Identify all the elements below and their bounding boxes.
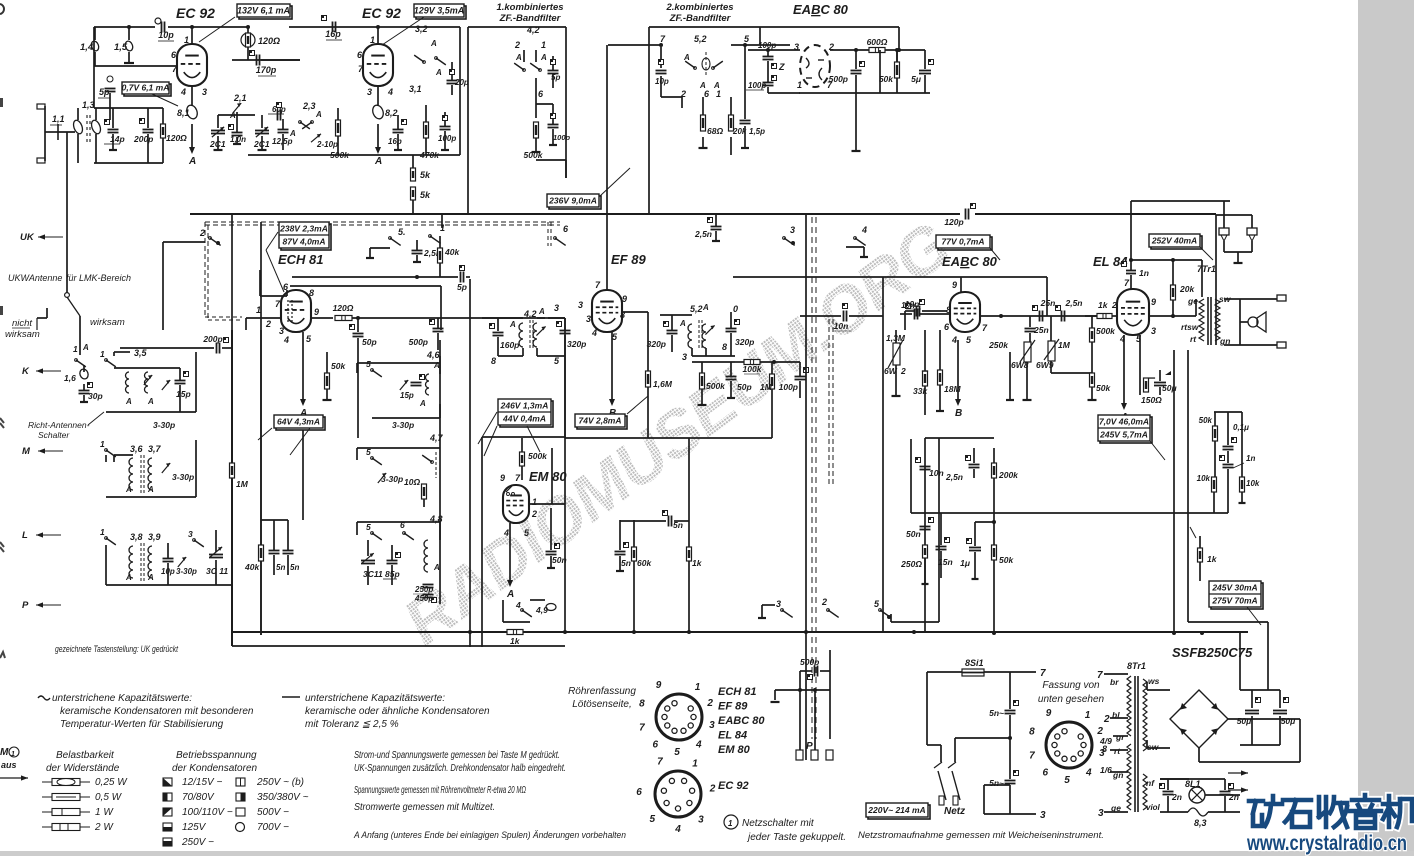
svg-text:2: 2: [1103, 714, 1110, 725]
coil 8,2: [377, 86, 379, 106]
svg-text:www.crystalradio.cn: www.crystalradio.cn: [1246, 832, 1407, 855]
cap 15n: [936, 546, 947, 548]
svg-text:P: P: [22, 600, 29, 611]
switch 2 left: [209, 237, 212, 240]
svg-text:sw: sw: [1147, 742, 1160, 752]
svg-text:nicht: nicht: [12, 318, 32, 329]
svg-text:14p: 14p: [110, 134, 125, 144]
svg-text:wirksam: wirksam: [90, 317, 125, 328]
resistor 100k horizontal: [744, 360, 760, 365]
svg-text:77V 0,7mA: 77V 0,7mA: [942, 236, 985, 246]
crystalradio logo chinese: [1249, 795, 1412, 828]
tube EABC80 diodes dashed circle: [800, 45, 830, 87]
svg-text:1: 1: [695, 682, 701, 693]
netz switch: [938, 771, 946, 800]
output jacks: [1277, 295, 1286, 301]
svg-text:1: 1: [370, 35, 375, 45]
caps 5n netz upper: [1005, 710, 1016, 712]
svg-text:K: K: [22, 366, 30, 377]
trimmer 3-30p K: [162, 380, 170, 390]
svg-text:der Widerstände: der Widerstände: [46, 763, 120, 774]
cap 10p coupling: [155, 18, 161, 24]
svg-text:3,5: 3,5: [134, 348, 148, 358]
wire EC92-1 plate riser: [191, 27, 193, 45]
resistor 1k row: [687, 547, 692, 561]
cap 50n em80: [546, 551, 557, 553]
long vertical x806: [805, 214, 807, 760]
svg-text:2: 2: [1111, 300, 1117, 310]
svg-text:4: 4: [387, 87, 393, 97]
cap 320p ef in: [560, 330, 571, 332]
svg-text:0,25 W: 0,25 W: [95, 777, 128, 788]
cap 1,5p: [740, 120, 751, 122]
value box 77V 0,7mA: [938, 237, 992, 250]
svg-text:Temperatur-Werten für Stabilis: Temperatur-Werten für Stabilisierung: [60, 719, 224, 730]
svg-text:UKWAntenne: UKWAntenne: [8, 273, 62, 283]
svg-text:238V 2,3mA: 238V 2,3mA: [279, 223, 328, 233]
cap 5p agc: [460, 272, 462, 283]
svg-text:700V −: 700V −: [257, 822, 289, 833]
svg-text:2: 2: [514, 40, 520, 50]
svg-text:1,6: 1,6: [64, 373, 76, 383]
svg-text:2C1: 2C1: [209, 139, 226, 149]
svg-text:1k: 1k: [1207, 554, 1218, 564]
fuse 8Si1: [962, 669, 984, 676]
legend capacitor col1: [163, 778, 172, 786]
arrow A cathode EC92-2: [377, 124, 379, 148]
svg-text:170p: 170p: [256, 65, 277, 75]
coil 8,1: [191, 86, 193, 106]
svg-text:10n: 10n: [901, 301, 915, 310]
P group wires: [799, 671, 801, 690]
svg-text:1 W: 1 W: [95, 807, 114, 818]
pot 1M: [1048, 341, 1055, 361]
svg-text:A: A: [538, 307, 545, 316]
svg-text:1k: 1k: [692, 558, 703, 568]
tuning cap 2C1 bank2: [261, 115, 263, 128]
svg-text:1: 1: [692, 758, 698, 769]
svg-text:250k: 250k: [988, 340, 1009, 350]
svg-text:236V 9,0mA: 236V 9,0mA: [548, 195, 597, 205]
svg-text:125V: 125V: [182, 822, 207, 833]
caps 5n 5n: [269, 550, 280, 552]
svg-text:4: 4: [180, 87, 186, 97]
value boxes 7,0V / 245V: [1100, 417, 1152, 443]
svg-text:10Ω: 10Ω: [404, 477, 420, 487]
tube EL84: [1117, 289, 1149, 335]
cap 0,1u right: [1223, 446, 1234, 448]
resistor 50k mb: [992, 545, 997, 560]
svg-text:keramische oder ähnliche Ko: keramische oder ähnliche Kondensatoren: [305, 706, 490, 717]
svg-text:nf: nf: [1146, 778, 1155, 788]
dashed pair 10n run: [828, 319, 830, 486]
resistor 250ohm: [923, 545, 928, 558]
switch 3 mid rail: [783, 237, 786, 240]
svg-text:20k: 20k: [1179, 284, 1195, 294]
value box 0,7V 6,1mA: [124, 84, 171, 96]
cap 16p: [322, 16, 327, 21]
svg-text:A: A: [188, 156, 196, 167]
svg-text:100p: 100p: [438, 134, 456, 143]
svg-text:15p: 15p: [400, 391, 414, 400]
svg-text:5: 5: [366, 522, 371, 532]
svg-text:500k: 500k: [1096, 326, 1116, 336]
svg-text:1: 1: [11, 751, 15, 758]
svg-text:7: 7: [657, 756, 663, 767]
resistor 20k: [729, 115, 734, 131]
svg-text:1M: 1M: [1058, 340, 1071, 350]
value box 132V 6.1mA: [239, 6, 292, 19]
svg-text:1: 1: [541, 40, 546, 50]
svg-text:8: 8: [722, 342, 727, 352]
value box 74V 2,8mA: [577, 416, 627, 429]
svg-text:A: A: [515, 53, 522, 62]
svg-text:5n~: 5n~: [989, 778, 1004, 788]
legend resistor rows: [42, 781, 52, 783]
resistor 50k det: [895, 62, 900, 78]
tube EM80: [503, 485, 529, 523]
svg-text:100p: 100p: [553, 133, 571, 142]
svg-text:2,5n: 2,5n: [1064, 298, 1082, 308]
svg-text:A: A: [430, 39, 437, 48]
svg-text:3,8: 3,8: [130, 532, 143, 542]
svg-text:20p: 20p: [454, 78, 469, 87]
svg-text:120Ω: 120Ω: [258, 36, 280, 46]
resistor 120ohm bias with circle: [241, 33, 255, 47]
svg-text:EM 80: EM 80: [718, 744, 751, 756]
arrow A cathode EC92-1: [191, 124, 193, 148]
svg-text:3: 3: [682, 352, 687, 362]
svg-text:Netzschalter mit: Netzschalter mit: [742, 818, 815, 829]
svg-text:500p: 500p: [829, 74, 848, 84]
svg-text:3: 3: [790, 225, 795, 235]
svg-text:200p: 200p: [202, 334, 222, 344]
svg-text:5p: 5p: [99, 87, 110, 97]
cap 100p agc: [795, 376, 806, 378]
left antenna connector: [37, 104, 45, 109]
cap 500p mid: [433, 328, 444, 330]
svg-text:1.kombiniertes: 1.kombiniertes: [496, 2, 563, 13]
svg-text:6: 6: [1042, 767, 1048, 778]
trimmer 2,1: [233, 103, 241, 113]
svg-text:2: 2: [709, 784, 716, 795]
long dashed pair x812: [811, 217, 813, 739]
svg-text:2C1: 2C1: [253, 139, 270, 149]
arrow B eabc: [957, 340, 959, 400]
svg-text:129V 3,5mA: 129V 3,5mA: [414, 5, 465, 15]
long vertical x883: [882, 277, 884, 632]
coil 1,4: [94, 27, 96, 40]
svg-text:7,0V 46,0mA: 7,0V 46,0mA: [1099, 416, 1149, 426]
svg-text:3C 11: 3C 11: [206, 566, 228, 576]
svg-text:2-10p: 2-10p: [316, 140, 338, 149]
bandfilter1 frame: [468, 26, 566, 28]
rail y438 right segment: [925, 437, 994, 439]
wire em80 pins: [529, 503, 565, 505]
socket netz: [1046, 722, 1092, 768]
svg-text:ZF.-Bandfilter: ZF.-Bandfilter: [499, 13, 562, 24]
power trafo primary winding lower: [1127, 744, 1131, 810]
svg-text:10n: 10n: [929, 468, 944, 478]
svg-text:1: 1: [100, 439, 105, 449]
resistor 50k ech: [325, 373, 330, 389]
svg-text:1k: 1k: [1098, 300, 1109, 310]
svg-text:8Tr1: 8Tr1: [1127, 661, 1146, 671]
switch 6 dashed entry: [554, 237, 557, 240]
svg-text:Schalter: Schalter: [38, 430, 70, 440]
svg-text:gr: gr: [1115, 732, 1125, 742]
svg-text:A: A: [433, 563, 440, 572]
vertical feed right: [1239, 633, 1241, 690]
svg-text:70/80V: 70/80V: [182, 792, 215, 803]
svg-text:6W8: 6W8: [1011, 360, 1029, 370]
legend underlined cap note left: [38, 696, 50, 700]
rail y277: [733, 276, 1047, 278]
svg-text:100p: 100p: [758, 41, 776, 50]
svg-text:1,4: 1,4: [80, 42, 94, 53]
cap 50p: [353, 333, 364, 335]
switch 3 bottom: [781, 609, 784, 612]
svg-text:unterstrichene Kapazitätswert: unterstrichene Kapazitätswerte:: [305, 693, 445, 704]
svg-text:A: A: [147, 573, 154, 582]
svg-text:50k: 50k: [879, 74, 894, 84]
hexode grid dashes: [287, 300, 289, 322]
svg-text:1,3: 1,3: [82, 100, 95, 110]
cap 20p: [447, 80, 458, 82]
svg-text:2: 2: [531, 509, 537, 519]
svg-text:4: 4: [503, 528, 509, 538]
em80 frame wires: [482, 436, 565, 438]
cap 60p: [277, 110, 279, 121]
svg-text:4,2: 4,2: [523, 309, 537, 319]
svg-text:8L1: 8L1: [1185, 779, 1201, 789]
speaker: [1224, 298, 1277, 300]
svg-text:2n: 2n: [1171, 792, 1182, 802]
svg-text:1: 1: [100, 527, 105, 537]
svg-text:50n: 50n: [552, 555, 567, 565]
svg-text:8: 8: [639, 698, 645, 709]
svg-text:A: A: [289, 129, 296, 138]
svg-text:1M: 1M: [236, 479, 249, 489]
svg-text:9: 9: [1046, 708, 1052, 719]
svg-text:4,7: 4,7: [429, 433, 444, 443]
cap 320p left of trafo: [667, 330, 678, 332]
svg-text:10p: 10p: [158, 30, 174, 40]
wire ECH81 grid: [246, 317, 281, 319]
svg-text:5k: 5k: [420, 170, 431, 180]
svg-text:245V 30mA: 245V 30mA: [1211, 582, 1257, 592]
wire bottom of input stage: [94, 162, 163, 164]
svg-text:A: A: [506, 589, 514, 600]
svg-text:A: A: [435, 68, 442, 77]
svg-text:rtsw: rtsw: [1181, 322, 1200, 332]
svg-text:44V 0,4mA: 44V 0,4mA: [502, 413, 546, 423]
svg-text:68Ω: 68Ω: [707, 126, 723, 136]
svg-text:120Ω: 120Ω: [166, 133, 187, 143]
cap 10p bf2: [656, 70, 667, 72]
svg-text:A: A: [147, 397, 154, 406]
svg-text:4: 4: [591, 328, 597, 338]
svg-text:1: 1: [1085, 710, 1091, 721]
svg-text:3,6: 3,6: [130, 444, 144, 454]
svg-text:15p: 15p: [176, 389, 191, 399]
svg-text:3,9: 3,9: [148, 532, 161, 542]
wire det bottom: [799, 92, 880, 94]
wires left frame: [105, 545, 107, 585]
svg-text:200p: 200p: [133, 134, 153, 144]
svg-text:64V 4,3mA: 64V 4,3mA: [277, 416, 320, 426]
svg-text:EC 92: EC 92: [176, 5, 215, 21]
svg-text:9: 9: [500, 473, 505, 483]
frame vertical x261: [260, 330, 262, 635]
svg-text:1,0n: 1,0n: [230, 135, 246, 144]
svg-text:A: A: [315, 110, 322, 119]
svg-text:100p: 100p: [748, 81, 766, 90]
section 3,8 3,9 L band: [105, 537, 108, 540]
cap 1,0n: [232, 132, 243, 134]
svg-text:4,6: 4,6: [426, 350, 441, 360]
power trafo secondary upper: [1143, 679, 1147, 751]
svg-text:aus: aus: [1, 760, 17, 770]
svg-text:3: 3: [202, 87, 207, 97]
svg-text:2: 2: [706, 698, 713, 709]
cap 50u cathode: [1154, 382, 1166, 384]
coil 1,5: [128, 27, 130, 40]
arrow A ECH81: [302, 332, 304, 400]
svg-text:1k: 1k: [510, 636, 521, 646]
svg-text:2,5n: 2,5n: [945, 472, 963, 482]
svg-text:33k: 33k: [913, 386, 928, 396]
svg-text:200k: 200k: [998, 470, 1019, 480]
note netzschalter: [724, 815, 738, 829]
bridge wires: [1147, 689, 1170, 691]
svg-text:ZF.-Bandfilter: ZF.-Bandfilter: [669, 13, 732, 24]
svg-text:120p: 120p: [944, 217, 963, 227]
svg-text:40k: 40k: [444, 247, 460, 257]
svg-text:ws: ws: [1148, 676, 1160, 686]
cap 100p agc1: [748, 49, 800, 51]
cap 2,5n mb: [969, 464, 980, 466]
switch 5 mid: [389, 237, 392, 240]
svg-text:25n: 25n: [1033, 325, 1049, 335]
svg-text:der Kondensatoren: der Kondensatoren: [172, 763, 258, 774]
svg-text:3,1: 3,1: [409, 84, 422, 94]
svg-text:wirksam: wirksam: [5, 329, 40, 340]
svg-text:85p: 85p: [385, 569, 400, 579]
svg-text:220V~ 214 mA: 220V~ 214 mA: [867, 805, 925, 815]
svg-text:500V −: 500V −: [257, 807, 289, 818]
tube EC92 no.2: [363, 44, 393, 86]
svg-text:50μ: 50μ: [1237, 716, 1252, 726]
svg-text:3C11: 3C11: [363, 569, 383, 579]
cathode 150ohm: [1139, 335, 1141, 395]
svg-text:8,3: 8,3: [1194, 818, 1207, 828]
resistor 120ohm cathode: [161, 124, 166, 138]
section 4,8: [371, 532, 374, 535]
svg-text:4: 4: [951, 335, 957, 345]
cap 320p right of trafo: [726, 328, 737, 330]
resistor 200k mb: [992, 463, 997, 478]
svg-text:Lötösenseite,: Lötösenseite,: [572, 699, 632, 710]
value box 64V 4,3mA: [276, 417, 325, 430]
svg-text:2: 2: [821, 597, 827, 607]
svg-text:1n: 1n: [1139, 268, 1149, 278]
cap 2,5n mid: [711, 226, 722, 228]
svg-text:0,7V 6,1 mA: 0,7V 6,1 mA: [122, 83, 170, 93]
svg-text:8: 8: [491, 356, 496, 366]
cap 100p agc2: [763, 82, 774, 84]
section 3,6 3,7 M band: [105, 449, 108, 452]
cap 1n right: [1223, 464, 1234, 466]
tube EC92 no.1: [177, 44, 207, 86]
svg-text:5n: 5n: [621, 558, 631, 568]
svg-text:40k: 40k: [244, 562, 260, 572]
svg-text:5p: 5p: [457, 282, 467, 292]
resistor 40k: [438, 248, 443, 263]
svg-text:Netz: Netz: [944, 806, 965, 817]
svg-text:16p: 16p: [325, 29, 341, 39]
svg-text:unterstrichene Kapazitätswerte: unterstrichene Kapazitätswerte:: [52, 693, 192, 704]
lamp 8L1: [1189, 787, 1205, 803]
tuning cap 2C1 bank1: [217, 115, 219, 128]
svg-text:1: 1: [73, 344, 78, 354]
svg-text:132V 6,1 mA: 132V 6,1 mA: [237, 5, 290, 15]
svg-text:30p: 30p: [88, 391, 103, 401]
top right rail y201: [1131, 200, 1230, 202]
power transformer core: [1134, 676, 1136, 812]
cap 200p bandswitch: [216, 343, 218, 354]
resistor 500k: [336, 120, 341, 136]
svg-text:1μ: 1μ: [960, 558, 971, 568]
svg-text:2: 2: [680, 89, 686, 99]
svg-text:A: A: [374, 156, 382, 167]
svg-text:1/6: 1/6: [1100, 765, 1112, 775]
long rail y513: [911, 512, 1228, 514]
svg-text:50k: 50k: [331, 361, 346, 371]
cap 10n mb: [920, 466, 931, 468]
long verticals right pair: [1173, 350, 1175, 633]
cap 500p P: [814, 666, 816, 677]
arrow A EL84: [1123, 335, 1125, 404]
cap 14p: [108, 129, 119, 131]
svg-text:252V 40mA: 252V 40mA: [1151, 235, 1197, 245]
cap 5n horiz: [668, 516, 670, 527]
wire grid rail: [94, 65, 177, 67]
svg-text:3: 3: [188, 529, 193, 539]
svg-text:1: 1: [256, 305, 261, 315]
svg-text:10k: 10k: [1197, 474, 1211, 483]
svg-text:8: 8: [309, 288, 314, 298]
wire el84 plate: [1149, 315, 1196, 317]
svg-text:1,5p: 1,5p: [749, 127, 765, 136]
value box 252V 40mA: [1151, 236, 1202, 249]
rail y622 to caps: [1188, 621, 1268, 623]
svg-text:3: 3: [709, 720, 715, 731]
cap 10n left: [843, 311, 845, 322]
wire EC92-2 plate: [377, 27, 379, 45]
svg-text:1: 1: [100, 349, 105, 359]
resistor 1k em80: [507, 630, 523, 635]
svg-text:UK-Spannungen zusätzlich. Dreh: UK-Spannungen zusätzlich. Drehkondensato…: [354, 763, 566, 774]
svg-text:3,7: 3,7: [148, 444, 162, 454]
resistor 5k upper: [411, 168, 416, 181]
svg-text:A: A: [125, 485, 132, 494]
svg-text:9: 9: [656, 680, 662, 691]
svg-text:A: A: [147, 485, 154, 494]
phono jacks top: [1219, 228, 1229, 235]
switch 5 bottom: [879, 609, 882, 612]
svg-text:4: 4: [674, 824, 681, 835]
